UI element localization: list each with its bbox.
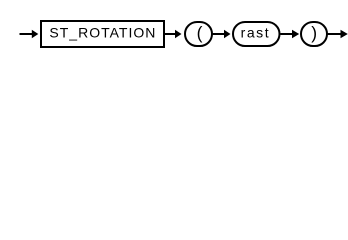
box ST_ROTATION	[41, 21, 164, 47]
svg-text:ST_ROTATION: ST_ROTATION	[49, 25, 156, 41]
terminal pill (	[185, 22, 212, 46]
wire end segment	[328, 33, 342, 35]
wire start segment	[20, 33, 33, 35]
arrowhead start	[32, 30, 39, 39]
arrowhead before (	[175, 30, 182, 39]
wire ( to rast terminal	[213, 33, 226, 35]
arrowhead before )	[292, 30, 299, 39]
wire box to ( terminal	[165, 33, 176, 35]
svg-text:rast: rast	[241, 25, 271, 41]
wire rast to ) terminal	[281, 33, 294, 35]
background	[0, 0, 348, 58]
arrowhead before rast	[224, 30, 231, 39]
svg-text:): )	[311, 23, 317, 43]
terminal pill )	[301, 22, 327, 46]
terminal pill rast	[233, 22, 280, 46]
svg-text:(: (	[197, 23, 203, 43]
arrowhead end	[341, 30, 348, 39]
